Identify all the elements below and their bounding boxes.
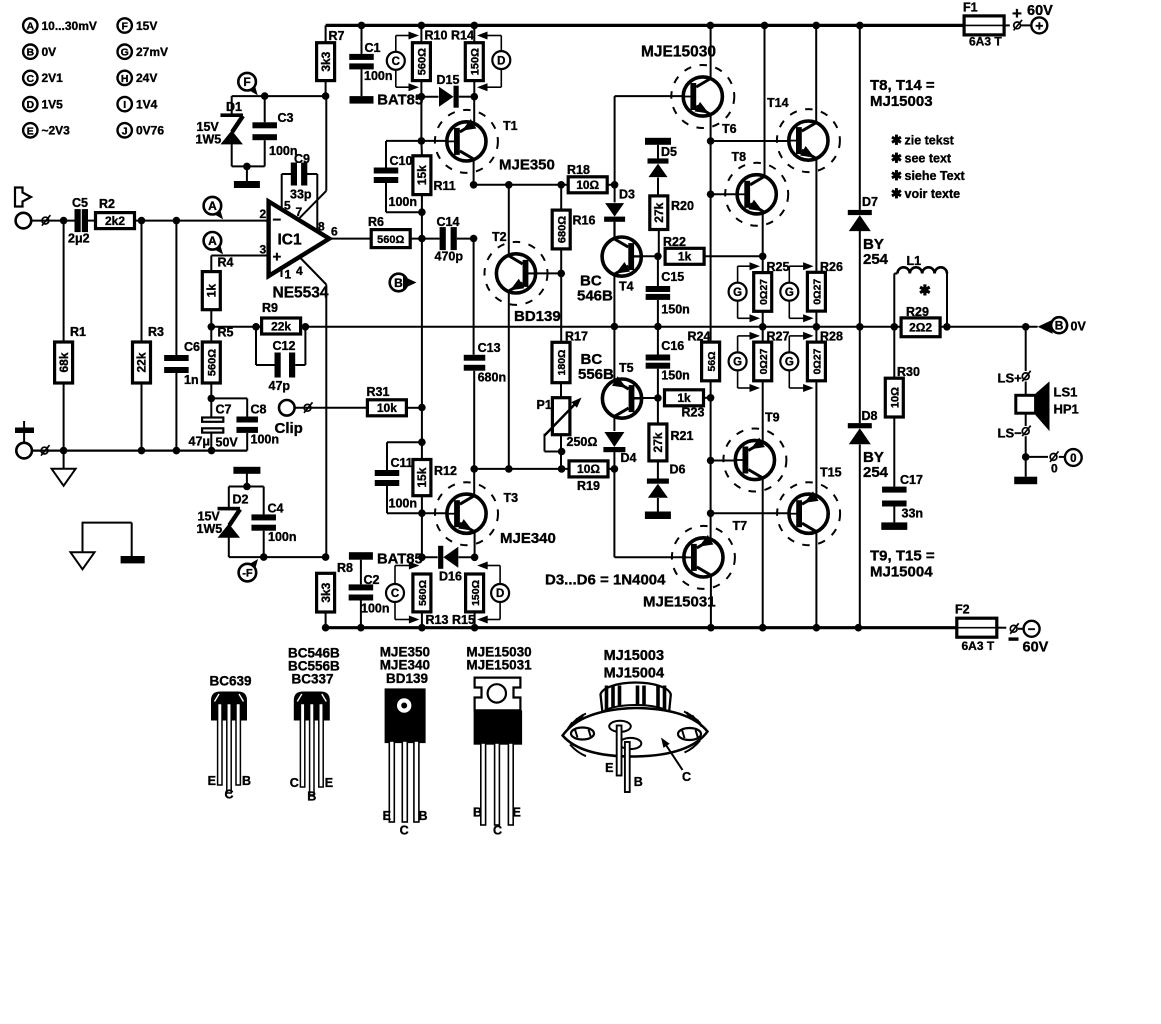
svg-text:C12: C12 — [273, 339, 296, 353]
svg-text:C: C — [290, 776, 299, 790]
svg-text:254: 254 — [863, 464, 889, 481]
svg-text:2V1: 2V1 — [42, 71, 64, 85]
svg-text:R25: R25 — [767, 260, 790, 274]
svg-text:C: C — [391, 588, 399, 600]
svg-text:560Ω: 560Ω — [207, 349, 219, 376]
svg-text:T4: T4 — [619, 280, 634, 294]
svg-text:G: G — [733, 287, 742, 299]
svg-text:BC639: BC639 — [210, 674, 252, 689]
svg-text:0Ω27: 0Ω27 — [812, 279, 824, 305]
svg-text:100n: 100n — [364, 69, 393, 83]
svg-text:C7: C7 — [216, 403, 232, 417]
svg-text:R14: R14 — [451, 29, 474, 43]
svg-text:R13: R13 — [426, 613, 449, 627]
svg-text:1V5: 1V5 — [42, 97, 64, 111]
svg-text:60V: 60V — [1027, 3, 1053, 19]
svg-text:0: 0 — [1070, 453, 1076, 465]
svg-text:6A3 T: 6A3 T — [969, 35, 1002, 49]
svg-text:NE5534: NE5534 — [273, 285, 329, 302]
svg-text:R11: R11 — [434, 179, 456, 193]
svg-text:33p: 33p — [290, 188, 312, 202]
svg-text:T6: T6 — [722, 122, 737, 136]
svg-text:150n: 150n — [661, 369, 690, 383]
svg-text:680n: 680n — [478, 371, 507, 385]
svg-text:G: G — [121, 47, 129, 59]
svg-text:D: D — [27, 99, 35, 111]
svg-text:254: 254 — [863, 251, 889, 268]
svg-text:50V: 50V — [216, 436, 239, 450]
svg-text:MJE15031: MJE15031 — [643, 594, 716, 611]
svg-text:R2: R2 — [99, 197, 115, 211]
svg-text:see text: see text — [905, 151, 952, 165]
svg-text:G: G — [785, 287, 794, 299]
svg-text:10Ω: 10Ω — [577, 462, 600, 476]
svg-text:HP1: HP1 — [1054, 402, 1079, 417]
svg-text:−: − — [273, 212, 282, 229]
svg-text:T2: T2 — [492, 230, 507, 244]
svg-text:1k: 1k — [678, 250, 692, 264]
svg-text:470p: 470p — [435, 250, 464, 264]
svg-text:0Ω27: 0Ω27 — [758, 348, 770, 374]
svg-text:R12: R12 — [434, 464, 457, 478]
svg-text:B: B — [394, 276, 403, 290]
svg-text:15V: 15V — [136, 19, 157, 33]
svg-text:✱: ✱ — [891, 186, 902, 201]
svg-text:27k: 27k — [651, 432, 665, 452]
svg-text:24V: 24V — [136, 71, 157, 85]
svg-text:R26: R26 — [820, 260, 843, 274]
svg-text:Clip: Clip — [275, 420, 303, 437]
svg-text:C15: C15 — [661, 270, 684, 284]
svg-text:680Ω: 680Ω — [556, 216, 568, 243]
svg-text:100n: 100n — [361, 602, 390, 616]
svg-text:0: 0 — [1051, 462, 1058, 476]
svg-text:546B: 546B — [577, 288, 613, 305]
svg-text:F: F — [121, 21, 128, 33]
svg-text:A: A — [208, 234, 217, 248]
svg-text:B: B — [242, 774, 251, 788]
svg-text:R3: R3 — [148, 325, 164, 339]
svg-text:H: H — [121, 73, 129, 85]
svg-text:F1: F1 — [963, 1, 978, 15]
svg-text:15k: 15k — [415, 467, 429, 487]
svg-text:A: A — [208, 199, 217, 213]
svg-text:LS1: LS1 — [1054, 385, 1078, 400]
svg-text:1: 1 — [285, 268, 292, 282]
svg-text:C: C — [224, 788, 233, 802]
svg-text:100n: 100n — [389, 497, 418, 511]
svg-text:560Ω: 560Ω — [417, 48, 429, 75]
svg-text:60V: 60V — [1023, 640, 1049, 656]
svg-text:MJE15030: MJE15030 — [641, 44, 716, 61]
svg-text:C17: C17 — [900, 473, 923, 487]
svg-text:E: E — [513, 806, 521, 820]
svg-text:R8: R8 — [337, 561, 353, 575]
svg-text:R16: R16 — [573, 214, 596, 228]
svg-text:1W5: 1W5 — [196, 133, 222, 147]
svg-text:22k: 22k — [271, 319, 291, 333]
svg-text:47p: 47p — [269, 379, 291, 393]
svg-text:✱: ✱ — [891, 133, 902, 148]
svg-text:D16: D16 — [439, 570, 462, 584]
svg-text:B: B — [1055, 319, 1064, 333]
svg-text:B: B — [473, 806, 482, 820]
svg-text:BAT85: BAT85 — [377, 93, 423, 109]
svg-text:D: D — [496, 588, 504, 600]
svg-text:100n: 100n — [268, 530, 297, 544]
svg-text:C: C — [400, 824, 409, 838]
svg-text:R28: R28 — [820, 330, 843, 344]
svg-text:R10: R10 — [425, 29, 448, 43]
svg-text:D5: D5 — [661, 145, 677, 159]
svg-text:C: C — [27, 73, 35, 85]
svg-text:R7: R7 — [329, 29, 345, 43]
svg-text:R27: R27 — [767, 330, 790, 344]
svg-text:C: C — [682, 770, 691, 784]
svg-text:R31: R31 — [367, 385, 390, 399]
svg-text:B: B — [419, 809, 428, 823]
svg-text:T9, T15 =: T9, T15 = — [870, 548, 935, 565]
svg-text:-F: -F — [242, 568, 253, 580]
svg-text:✱: ✱ — [891, 168, 902, 183]
svg-text:siehe Text: siehe Text — [905, 169, 966, 183]
svg-text:MJ15003: MJ15003 — [870, 93, 933, 110]
svg-text:MJE15031: MJE15031 — [466, 658, 532, 673]
svg-text:C4: C4 — [268, 502, 284, 516]
svg-text:R4: R4 — [218, 256, 234, 270]
svg-text:0V: 0V — [1071, 320, 1087, 334]
svg-text:1k: 1k — [205, 284, 219, 298]
svg-text:C2: C2 — [364, 573, 380, 587]
svg-text:R6: R6 — [368, 215, 384, 229]
svg-text:BC337: BC337 — [292, 672, 334, 687]
svg-text:556B: 556B — [578, 366, 614, 383]
svg-text:47μ: 47μ — [189, 435, 211, 449]
svg-text:10Ω: 10Ω — [890, 387, 902, 408]
svg-text:8: 8 — [318, 220, 325, 234]
svg-text:C5: C5 — [72, 196, 88, 210]
svg-text:2μ2: 2μ2 — [68, 232, 90, 246]
svg-text:LS+: LS+ — [998, 371, 1023, 386]
svg-text:E: E — [208, 774, 216, 788]
svg-text:B: B — [27, 47, 35, 59]
svg-text:0V: 0V — [42, 45, 57, 59]
svg-text:150n: 150n — [661, 303, 690, 317]
svg-text:150Ω: 150Ω — [470, 580, 482, 606]
svg-text:0Ω27: 0Ω27 — [812, 348, 824, 374]
svg-text:56Ω: 56Ω — [706, 351, 718, 371]
svg-text:BD139: BD139 — [514, 308, 561, 325]
svg-text:R21: R21 — [671, 429, 694, 443]
svg-text:T8, T14 =: T8, T14 = — [870, 77, 935, 94]
svg-text:P1: P1 — [537, 398, 552, 412]
svg-text:180Ω: 180Ω — [556, 350, 568, 376]
svg-text:R19: R19 — [577, 479, 600, 493]
svg-text:T15: T15 — [820, 466, 842, 480]
svg-text:4: 4 — [296, 264, 303, 278]
svg-text:B: B — [634, 775, 643, 789]
svg-text:27k: 27k — [652, 202, 666, 222]
svg-text:2: 2 — [260, 207, 267, 221]
svg-text:MJE340: MJE340 — [500, 530, 556, 547]
svg-text:T3: T3 — [504, 491, 519, 505]
svg-text:−: − — [1028, 621, 1036, 636]
svg-text:3k3: 3k3 — [319, 51, 333, 71]
svg-text:C: C — [392, 56, 400, 68]
svg-text:E: E — [383, 809, 391, 823]
svg-text:D3: D3 — [619, 188, 635, 202]
svg-text:C8: C8 — [251, 403, 267, 417]
svg-text:T8: T8 — [732, 150, 747, 164]
svg-text:D6: D6 — [670, 463, 686, 477]
svg-text:C1: C1 — [365, 41, 381, 55]
svg-text:E: E — [605, 761, 613, 775]
svg-text:C16: C16 — [661, 339, 684, 353]
svg-text:R15: R15 — [452, 613, 475, 627]
svg-text:D7: D7 — [862, 195, 878, 209]
svg-text:F2: F2 — [955, 603, 970, 617]
svg-text:C14: C14 — [437, 215, 460, 229]
svg-text:1W5: 1W5 — [197, 522, 223, 536]
svg-text:D15: D15 — [437, 73, 460, 87]
svg-text:68k: 68k — [57, 352, 71, 372]
svg-text:2k2: 2k2 — [105, 214, 125, 228]
svg-text:27mV: 27mV — [136, 45, 168, 59]
svg-text:voir texte: voir texte — [905, 187, 961, 201]
svg-text:MJ15004: MJ15004 — [870, 564, 933, 581]
svg-text:T7: T7 — [733, 519, 748, 533]
svg-text:560Ω: 560Ω — [417, 580, 429, 606]
svg-text:R17: R17 — [565, 330, 588, 344]
svg-text:D: D — [497, 55, 505, 67]
svg-text:R24: R24 — [688, 330, 711, 344]
svg-text:R18: R18 — [567, 163, 590, 177]
svg-text:T1: T1 — [503, 119, 518, 133]
svg-text:1n: 1n — [184, 373, 199, 387]
svg-text:6A3 T: 6A3 T — [962, 639, 995, 653]
svg-text:C10: C10 — [390, 154, 413, 168]
svg-text:10Ω: 10Ω — [576, 178, 599, 192]
svg-text:BD139: BD139 — [386, 671, 428, 686]
svg-text:G: G — [785, 357, 794, 369]
svg-text:R30: R30 — [897, 365, 920, 379]
svg-text:10k: 10k — [377, 401, 397, 415]
svg-text:D3...D6 = 1N4004: D3...D6 = 1N4004 — [545, 572, 666, 589]
svg-text:D8: D8 — [862, 409, 878, 423]
svg-text:C6: C6 — [184, 340, 200, 354]
svg-text:22k: 22k — [135, 352, 149, 372]
svg-text:1k: 1k — [677, 391, 691, 405]
svg-text:✱: ✱ — [919, 282, 931, 298]
svg-text:D2: D2 — [233, 493, 249, 507]
svg-text:+: + — [273, 249, 282, 266]
svg-text:T9: T9 — [765, 411, 780, 425]
svg-text:L1: L1 — [907, 254, 922, 268]
svg-text:150Ω: 150Ω — [470, 48, 482, 75]
svg-text:MJ15003: MJ15003 — [604, 648, 664, 664]
svg-text:~2V3: ~2V3 — [42, 124, 71, 138]
svg-text:E: E — [325, 776, 333, 790]
svg-text:10...30mV: 10...30mV — [42, 19, 97, 33]
svg-text:R9: R9 — [262, 301, 278, 315]
svg-text:MJ15004: MJ15004 — [604, 666, 664, 682]
svg-text:3: 3 — [260, 243, 267, 257]
svg-text:MJE350: MJE350 — [499, 157, 555, 174]
svg-text:zie tekst: zie tekst — [905, 134, 955, 148]
svg-text:2Ω2: 2Ω2 — [909, 321, 932, 335]
svg-text:0V76: 0V76 — [136, 124, 164, 138]
svg-text:F: F — [243, 75, 250, 89]
svg-text:C11: C11 — [391, 456, 413, 470]
svg-text:D4: D4 — [621, 451, 637, 465]
svg-text:100n: 100n — [389, 195, 418, 209]
svg-text:0Ω27: 0Ω27 — [758, 279, 770, 305]
svg-text:+: + — [1035, 17, 1043, 33]
svg-text:R23: R23 — [682, 406, 705, 420]
svg-text:C13: C13 — [478, 341, 501, 355]
svg-text:D1: D1 — [226, 100, 242, 114]
svg-text:R1: R1 — [70, 325, 86, 339]
svg-text:C3: C3 — [278, 111, 294, 125]
svg-text:100n: 100n — [269, 144, 298, 158]
svg-text:LS−: LS− — [998, 426, 1023, 441]
svg-text:T5: T5 — [619, 361, 634, 375]
svg-text:C: C — [493, 824, 502, 838]
svg-text:E: E — [27, 125, 34, 137]
svg-text:33n: 33n — [902, 507, 924, 521]
svg-text:IC1: IC1 — [278, 232, 303, 249]
svg-text:+: + — [1012, 4, 1022, 23]
svg-text:T14: T14 — [767, 96, 789, 110]
svg-text:J: J — [122, 125, 128, 137]
svg-text:560Ω: 560Ω — [377, 234, 404, 246]
svg-text:1V4: 1V4 — [136, 97, 158, 111]
svg-text:6: 6 — [331, 225, 338, 239]
svg-text:15k: 15k — [415, 165, 429, 185]
svg-text:250Ω: 250Ω — [567, 435, 598, 449]
svg-text:A: A — [27, 21, 35, 33]
svg-text:G: G — [733, 357, 742, 369]
svg-text:3k3: 3k3 — [319, 582, 333, 602]
svg-text:✱: ✱ — [891, 150, 902, 165]
svg-text:B: B — [307, 790, 316, 804]
svg-text:I: I — [123, 99, 126, 111]
svg-text:R20: R20 — [671, 199, 694, 213]
